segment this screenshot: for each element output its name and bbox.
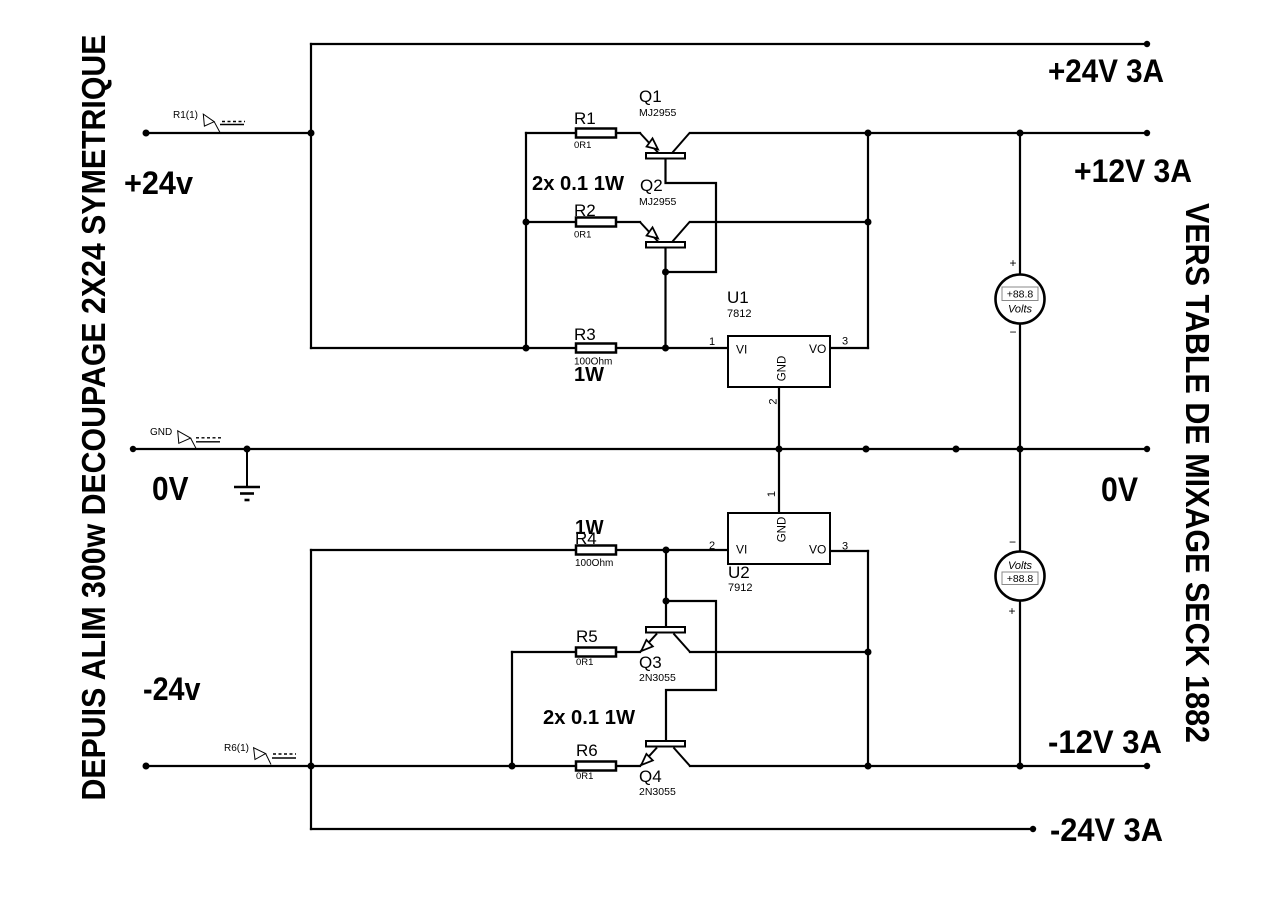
svg-text:Volts: Volts	[1008, 560, 1033, 572]
svg-text:MJ2955: MJ2955	[639, 196, 677, 208]
svg-text:GND: GND	[777, 517, 789, 543]
svg-text:1: 1	[766, 491, 778, 497]
node R4 row base junction	[663, 547, 670, 554]
node +24v input end	[143, 130, 150, 137]
node +12V rail x=1020	[1017, 130, 1024, 137]
node R3 row base junction	[662, 345, 669, 352]
node 0V left end	[130, 446, 136, 452]
svg-text:+24v: +24v	[124, 165, 193, 201]
node -24v junction x=311	[308, 763, 315, 770]
wire Q3 base up to R4 row	[665, 550, 667, 627]
svg-text:−: −	[1009, 325, 1016, 339]
wire U1 VO to x=868	[830, 347, 868, 349]
svg-text:3: 3	[842, 336, 848, 348]
resistor R4	[575, 516, 616, 569]
svg-text:R5: R5	[576, 627, 598, 646]
svg-text:2: 2	[709, 540, 715, 552]
wire -24V bottom rail	[311, 828, 1033, 830]
wire R4 row left	[311, 549, 576, 551]
voltmeter M2	[996, 535, 1045, 618]
svg-text:1W: 1W	[574, 364, 604, 386]
svg-text:VO: VO	[809, 543, 826, 557]
node base junction Q1/Q2	[662, 269, 669, 276]
wire R5 to Q3 emitter	[616, 651, 640, 653]
svg-text:0R1: 0R1	[576, 771, 593, 782]
wire R5 row left	[512, 651, 576, 653]
resistor R6	[576, 741, 616, 782]
node 0V regulator junction	[776, 446, 783, 453]
svg-text:0V: 0V	[1101, 471, 1138, 509]
svg-text:+12V 3A: +12V 3A	[1074, 153, 1192, 189]
svg-text:R1(1): R1(1)	[173, 110, 198, 121]
svg-text:+88.8: +88.8	[1007, 289, 1034, 301]
svg-text:GND: GND	[777, 356, 789, 382]
wire R3 row bottom of box	[311, 347, 576, 349]
svg-text:R1: R1	[574, 109, 596, 128]
net flag R1(1)	[173, 110, 245, 133]
node Q3 base junction	[663, 598, 670, 605]
svg-text:U2: U2	[728, 563, 750, 582]
svg-text:R4: R4	[575, 529, 597, 548]
svg-text:VERS TABLE DE MIXAGE SECK 1882: VERS TABLE DE MIXAGE SECK 1882	[1179, 203, 1216, 743]
wire left box vertical x=311 top	[310, 44, 312, 348]
wire voltmeter M1 bottom lead	[1019, 324, 1021, 449]
wire voltmeter M1 top lead	[1019, 133, 1021, 274]
svg-text:−: −	[1009, 535, 1016, 549]
wire vertical x=526	[525, 133, 527, 348]
wire 0V rail	[133, 448, 1147, 450]
transistor Q2	[639, 176, 690, 248]
node +24v junction x=311	[308, 130, 315, 137]
net flag GND	[150, 427, 221, 448]
resistor R3	[574, 325, 616, 386]
svg-text:R2: R2	[574, 201, 596, 220]
svg-text:DEPUIS ALIM 300w DECOUPAGE 2X2: DEPUIS ALIM 300w DECOUPAGE 2X24 SYMETRIQ…	[75, 35, 112, 801]
voltmeter M1	[996, 256, 1045, 339]
wire R2 to Q2 emitter	[616, 221, 640, 223]
wire vertical x=868 upper	[867, 133, 869, 348]
svg-text:VI: VI	[736, 543, 747, 557]
node 0V junction x=956	[953, 446, 960, 453]
wire +24v input	[146, 132, 311, 134]
svg-text:0V: 0V	[152, 470, 189, 507]
node Q2 collector x=868	[865, 219, 872, 226]
resistor R2	[574, 201, 616, 241]
node 0V junction x=866	[863, 446, 870, 453]
wire vertical x=512	[511, 652, 513, 766]
svg-text:VO: VO	[809, 342, 826, 356]
node -12V rail x=868	[865, 649, 872, 656]
wire top +24V rail horizontal	[311, 43, 1147, 45]
node -24v input end	[143, 763, 150, 770]
svg-text:R3: R3	[574, 325, 596, 344]
svg-text:MJ2955: MJ2955	[639, 107, 677, 119]
wire R4 to U2 VI	[616, 549, 728, 551]
node R6 row junction x=512	[509, 763, 516, 770]
op-amp U1 regulator 7812	[709, 288, 848, 405]
svg-text:Q4: Q4	[639, 767, 662, 786]
node 0V junction x=1020	[1017, 446, 1024, 453]
resistor R5	[576, 627, 616, 668]
svg-text:+: +	[1009, 256, 1016, 270]
transistor Q3	[639, 627, 690, 684]
svg-text:2N3055: 2N3055	[639, 786, 676, 798]
node R2 row junction x=526	[523, 219, 530, 226]
wire Q1 base loop	[666, 159, 717, 272]
net flag R6(1)	[224, 743, 296, 765]
svg-text:3: 3	[842, 541, 848, 553]
svg-text:Q3: Q3	[639, 653, 662, 672]
svg-text:VI: VI	[736, 343, 747, 357]
node -24V rail end	[1030, 826, 1036, 832]
wire -24v input / R6 row	[146, 765, 576, 767]
wire R3 to U1 VI	[616, 347, 728, 349]
svg-text:2N3055: 2N3055	[639, 672, 676, 684]
svg-text:2x 0.1 1W: 2x 0.1 1W	[543, 707, 635, 729]
svg-text:+24V 3A: +24V 3A	[1048, 53, 1164, 89]
node 0V ground junction	[244, 446, 251, 453]
wire voltmeter M2 bottom lead	[1019, 601, 1021, 766]
svg-text:Q1: Q1	[639, 87, 662, 106]
wire U1 pin2 to 0V	[778, 387, 780, 449]
junction and endpoint dots	[130, 41, 1150, 832]
wire Q3/Q4 base loop	[666, 601, 716, 741]
wire Q2 collector row	[690, 221, 868, 223]
svg-text:0R1: 0R1	[576, 657, 593, 668]
node +12V rail x=868	[865, 130, 872, 137]
node 0V right end	[1144, 446, 1150, 452]
node -12V rail junction x=868	[865, 763, 872, 770]
svg-text:R6(1): R6(1)	[224, 743, 249, 754]
svg-text:2x 0.1 1W: 2x 0.1 1W	[532, 173, 624, 195]
svg-text:1: 1	[709, 336, 715, 348]
svg-text:-24v: -24v	[143, 671, 201, 707]
wire R2 row left	[526, 221, 576, 223]
svg-text:100Ohm: 100Ohm	[575, 558, 613, 569]
svg-text:-12V 3A: -12V 3A	[1048, 724, 1162, 760]
svg-text:7912: 7912	[728, 582, 752, 594]
op-amp U2 regulator 7912	[709, 491, 848, 594]
svg-text:R6: R6	[576, 741, 598, 760]
wire U2 VO to x=868	[830, 550, 868, 552]
wire R1 to Q1 emitter	[616, 132, 640, 134]
svg-text:GND: GND	[150, 427, 172, 438]
node +12V rail end	[1144, 130, 1150, 136]
wire left vertical x=311 bottom	[310, 550, 312, 829]
wire R1 row left	[526, 132, 576, 134]
wire voltmeter M2 top lead	[1019, 449, 1021, 551]
wire vertical x=868 lower	[867, 551, 869, 766]
svg-text:7812: 7812	[727, 308, 751, 320]
transistor Q1	[639, 87, 690, 159]
svg-text:U1: U1	[727, 288, 749, 307]
node R3 row junction x=526	[523, 345, 530, 352]
svg-text:+: +	[1008, 604, 1015, 618]
svg-text:0R1: 0R1	[574, 230, 591, 241]
svg-text:Q2: Q2	[640, 176, 663, 195]
svg-text:+88.8: +88.8	[1007, 573, 1034, 585]
wire R6 to Q4 emitter	[616, 765, 640, 767]
svg-text:0R1: 0R1	[574, 140, 591, 151]
svg-text:-24V 3A: -24V 3A	[1050, 812, 1163, 848]
resistor R1	[574, 109, 616, 151]
node +24V rail end	[1144, 41, 1150, 47]
svg-text:2: 2	[768, 398, 780, 404]
transistor Q4	[639, 741, 690, 798]
wire Q2 base down to R3 row	[664, 248, 666, 348]
svg-text:Volts: Volts	[1008, 304, 1033, 316]
ground	[234, 449, 260, 500]
wire Q3 collector row	[690, 651, 868, 653]
node -12V rail end	[1144, 763, 1150, 769]
node -12V rail x=1020	[1017, 763, 1024, 770]
wire +12V rail from Q1 collector	[690, 132, 1147, 134]
wire -12V rail from Q4 collector	[690, 765, 1147, 767]
wire U2 pin1 from 0V	[778, 449, 780, 513]
